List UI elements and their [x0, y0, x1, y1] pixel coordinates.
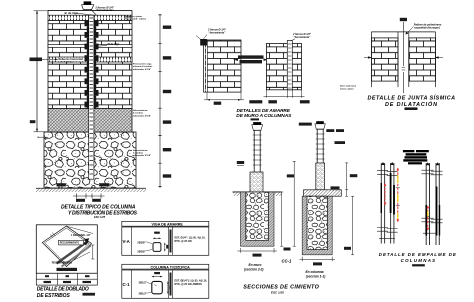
- right note preencuentro: [133, 63, 153, 71]
- top anchor symbol: [82, 1, 97, 15]
- ground line and hatch: [36, 188, 146, 192]
- title part2: [37, 287, 95, 299]
- title part1: [61, 205, 138, 219]
- svg-text:Sobrecimiento: Sobrecimiento: [133, 109, 148, 112]
- left splice bars: [381, 163, 395, 244]
- title part6: [379, 252, 457, 266]
- tecnopor label: [406, 23, 442, 34]
- svg-text:DETALLES DE AMARRE: DETALLES DE AMARRE: [237, 108, 291, 114]
- thin joint band mid-upper: [48, 45, 132, 48]
- left section column hat: [252, 122, 263, 130]
- labels right section: [306, 270, 326, 279]
- svg-text:Sobrecimiento: Sobrecimiento: [133, 149, 148, 152]
- left pier column strip: [204, 40, 208, 92]
- left footing pit: [241, 192, 275, 246]
- right pier top label: [291, 33, 312, 41]
- doblez label: [57, 268, 78, 271]
- svg-text:COLUMNA TCOLUMNA TÍPICA#205;PI: COLUMNA TCOLUMNA TÍPICA#205;PICA: [151, 265, 191, 269]
- column ladder core: [89, 15, 94, 179]
- svg-text:RTO. @.25 C/E AMBOS: RTO. @.25 C/E AMBOS: [175, 283, 203, 286]
- CC-1 label: [282, 259, 292, 264]
- VA notes: [175, 237, 206, 243]
- svg-text:& estribos: & estribos: [133, 152, 144, 155]
- left section column shaft: [253, 130, 262, 172]
- svg-text:(sección 2-2): (sección 2-2): [244, 268, 264, 272]
- right dim lines: [344, 163, 357, 255]
- right dim bracket: [91, 245, 94, 259]
- stirrup hook bars: [57, 238, 92, 266]
- svg-text:“herramienta”: “herramienta”: [294, 36, 312, 39]
- svg-text:DETALLE DE JUNTA SÍSMICA: DETALLE DE JUNTA SÍSMICA: [368, 94, 456, 101]
- svg-text:expandido (tecnopor): expandido (tecnopor): [414, 26, 440, 29]
- svg-text:VIGA DE AMARRE: VIGA DE AMARRE: [152, 222, 184, 226]
- stirrup table: [36, 273, 97, 285]
- label 2 fierros top: [94, 5, 114, 12]
- svg-text:Preencuentro viga,: Preencuentro viga,: [133, 63, 152, 66]
- svg-text:En columna: En columna: [306, 270, 324, 274]
- C1 column section sketch: [139, 272, 172, 296]
- left wall bricks: [371, 32, 398, 87]
- svg-text:En muro: En muro: [249, 263, 262, 267]
- right note sobrecimiento: [133, 109, 151, 117]
- VA beam section sketch: [137, 232, 168, 254]
- left right-side dims: [280, 161, 296, 250]
- right bar top arrows: [426, 162, 440, 165]
- joint center line: [402, 22, 406, 93]
- left red dims: [384, 168, 400, 223]
- left bar top arrows: [381, 162, 394, 165]
- right pier column ladder: [287, 41, 292, 90]
- cimiento stones base: [44, 132, 136, 188]
- SS mark top: [400, 18, 407, 21]
- left NPT label: [30, 120, 48, 138]
- svg-text:adicionales Ø 1/4": adicionales Ø 1/4": [133, 68, 151, 71]
- svg-text:“herramienta”: “herramienta”: [96, 8, 114, 12]
- svg-text:cada 3 hiladas: cada 3 hiladas: [59, 61, 75, 63]
- left splice tick marks: [377, 171, 398, 239]
- svg-text:DE MURO A COLUMNAS: DE MURO A COLUMNAS: [236, 113, 292, 119]
- dim texts above ground: [57, 183, 110, 186]
- right footing pit: [302, 196, 332, 255]
- svg-text:adicionales Ø 1/4": adicionales Ø 1/4": [133, 154, 151, 157]
- svg-text:columna & estribos: columna & estribos: [133, 65, 153, 68]
- top slab tick row: [48, 10, 132, 20]
- svg-text:DETALLE DE DOBLADO: DETALLE DE DOBLADO: [37, 287, 89, 293]
- svg-text:“herramienta”: “herramienta”: [209, 31, 227, 34]
- svg-text:ESC 1/25: ESC 1/25: [94, 215, 106, 219]
- svg-text:C-1: C-1: [123, 282, 131, 287]
- svg-text:2Ø3/8": 2Ø3/8": [137, 250, 146, 254]
- svg-text:& estribos: & estribos: [133, 112, 144, 115]
- VA header: [122, 221, 209, 226]
- svg-text:“Superboard” e=4mm: “Superboard” e=4mm: [125, 18, 147, 21]
- label B. de Viga: [65, 11, 94, 15]
- svg-text:DE ESTRIBOS: DE ESTRIBOS: [37, 293, 71, 299]
- svg-text:DE DILATACIÓN: DE DILATACIÓN: [385, 101, 437, 108]
- dren label: [340, 86, 357, 91]
- diagonal note: [66, 226, 93, 237]
- left pier bottom dimension: [204, 92, 244, 105]
- C1 notes: [175, 280, 208, 286]
- left pier brick body: [204, 40, 241, 92]
- toothed column core: [85, 20, 99, 108]
- left pier corner column section: [196, 36, 207, 46]
- svg-text:adicionales Ø 1/4": adicionales Ø 1/4": [133, 114, 151, 117]
- right splice ticks: [422, 170, 443, 233]
- left reinforcement note: [30, 58, 59, 62]
- right dimension line: [158, 14, 171, 188]
- right labels N.P.T.: [299, 123, 345, 190]
- top tie line: [371, 31, 435, 33]
- right section column shaft: [316, 129, 325, 163]
- title part5: [243, 285, 319, 295]
- svg-text:2Ø1/2": 2Ø1/2": [139, 280, 148, 284]
- svg-text:RTO. @.25 C/E: RTO. @.25 C/E: [175, 240, 193, 243]
- left footing bottom dim: [238, 248, 278, 257]
- side arrows: [364, 57, 443, 59]
- label O de Viga: [97, 42, 120, 46]
- brick wall field: [48, 20, 132, 108]
- right section column hat: [315, 121, 325, 129]
- svg-text:metro cubico: metro cubico: [340, 87, 354, 90]
- horizontal reinforcement band with note: [48, 57, 132, 63]
- right pier bottom dims: [249, 90, 309, 104]
- right splice bars: [425, 163, 440, 245]
- svg-text:V-A: V-A: [123, 239, 131, 244]
- svg-text:COLUMNAS: COLUMNAS: [401, 258, 436, 263]
- left section sobrecimiento: [250, 172, 263, 192]
- left section NPT label: [237, 161, 244, 166]
- lower recubrimiento note: [52, 252, 90, 264]
- svg-text:DETALLE DE EMPALME DE: DETALLE DE EMPALME DE: [379, 252, 457, 257]
- estribo box: [36, 225, 97, 273]
- right pier brick body: [266, 44, 301, 90]
- svg-text:1 DIAGONAL 1/2": 1 DIAGONAL 1/2": [71, 234, 91, 237]
- svg-text:Dren cada med.: Dren cada med.: [340, 86, 357, 88]
- recubrimiento label box: [59, 240, 89, 245]
- svg-text:CC-1: CC-1: [282, 259, 292, 264]
- center note ver detalle: [234, 55, 269, 63]
- svg-text:RECUBRIMIENTO: RECUBRIMIENTO: [60, 243, 80, 245]
- C1 header: [122, 264, 209, 269]
- right note solado: [133, 149, 151, 157]
- right section shaft grit: [316, 163, 325, 190]
- svg-text:(sección 1-1): (sección 1-1): [306, 274, 326, 278]
- svg-text:ESC 1/25: ESC 1/25: [271, 291, 284, 295]
- right red dim: [426, 206, 430, 231]
- svg-text:2Ø1/2": 2Ø1/2": [139, 292, 148, 296]
- labels left section: [244, 263, 264, 272]
- svg-text:Ø de Viga: Ø de Viga: [108, 42, 120, 46]
- VA body: [122, 227, 209, 255]
- C1 body: [122, 270, 209, 298]
- right wall bricks: [409, 32, 436, 87]
- title part3: [236, 108, 292, 120]
- right footing bottom dim: [300, 257, 336, 266]
- bottom dims of part1: [73, 194, 105, 202]
- left dimension line: [34, 11, 49, 132]
- right sobrecimiento band: [304, 190, 342, 196]
- title part4: [368, 94, 456, 110]
- note stack: [403, 150, 429, 164]
- sobrecimiento hatched band: [48, 109, 132, 133]
- svg-text:2Ø3/8": 2Ø3/8": [137, 240, 146, 244]
- left ground line: [233, 192, 282, 196]
- svg-text:RECUBRIMIENTO: RECUBRIMIENTO: [52, 261, 72, 264]
- left pier top label: [204, 29, 227, 39]
- right note solaqueo: [124, 15, 146, 20]
- stirrup diamond: [42, 226, 91, 266]
